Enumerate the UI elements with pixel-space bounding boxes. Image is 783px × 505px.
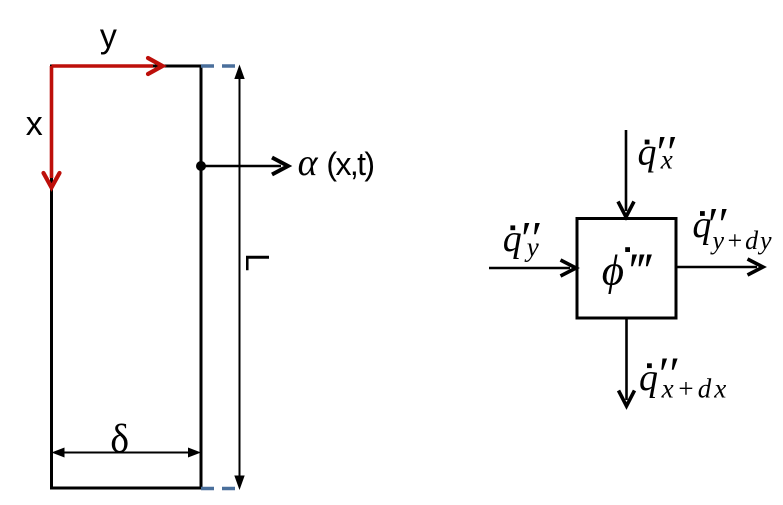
svg-text:ϕ: ϕ bbox=[602, 248, 624, 295]
svg-text:x+dx: x+dx bbox=[661, 374, 730, 404]
arrow q''x+dx (out bottom) bbox=[619, 319, 635, 406]
label q''x bbox=[638, 127, 677, 180]
dimension line delta bbox=[52, 448, 202, 458]
label delta bbox=[110, 416, 129, 461]
label q''y+dy bbox=[692, 198, 773, 255]
svg-text:(x,t): (x,t) bbox=[326, 146, 373, 182]
label y bbox=[100, 17, 117, 55]
svg-text:α: α bbox=[298, 142, 319, 184]
svg-text:y: y bbox=[100, 17, 117, 55]
svg-text:y+dy: y+dy bbox=[710, 226, 774, 255]
axis y (red arrow) bbox=[52, 58, 163, 74]
control volume box bbox=[577, 219, 676, 319]
wall rectangle bbox=[52, 66, 202, 488]
dashed extension bottom bbox=[201, 487, 237, 491]
svg-text:′′′: ′′′ bbox=[626, 242, 653, 298]
label q''x+dx bbox=[639, 348, 729, 404]
svg-text:x: x bbox=[660, 145, 673, 175]
svg-text:x: x bbox=[26, 105, 43, 143]
axis x (red arrow) bbox=[44, 66, 60, 188]
label L (rotated) bbox=[239, 253, 276, 271]
label x bbox=[26, 105, 43, 143]
arrow alpha(x,t) bbox=[201, 158, 288, 175]
svg-text:L: L bbox=[239, 253, 276, 271]
dashed extension top bbox=[201, 64, 237, 68]
label phi-dot triple prime (inside box) bbox=[602, 242, 653, 298]
node dot on right surface bbox=[196, 161, 206, 171]
arrow q''y+dy (out right) bbox=[677, 259, 763, 275]
arrow q''x (into top) bbox=[618, 130, 634, 217]
arrow q''y (into left) bbox=[489, 260, 576, 276]
label alpha (x,t) bbox=[298, 142, 374, 184]
label q''y bbox=[503, 212, 541, 265]
svg-text:δ: δ bbox=[110, 416, 129, 461]
svg-text:y: y bbox=[524, 232, 539, 262]
dimension line L bbox=[234, 65, 244, 491]
